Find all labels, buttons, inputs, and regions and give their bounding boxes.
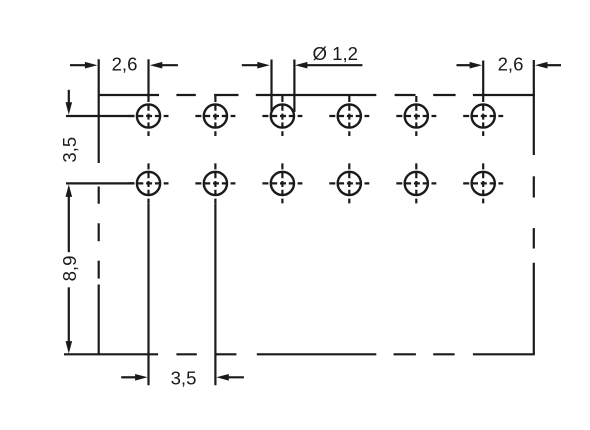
svg-text:3,5: 3,5 [59,137,80,163]
svg-text:2,6: 2,6 [112,54,138,75]
svg-text:Ø 1,2: Ø 1,2 [313,43,358,64]
svg-text:8,9: 8,9 [59,256,80,282]
svg-text:2,6: 2,6 [498,54,524,75]
svg-text:3,5: 3,5 [171,368,197,389]
